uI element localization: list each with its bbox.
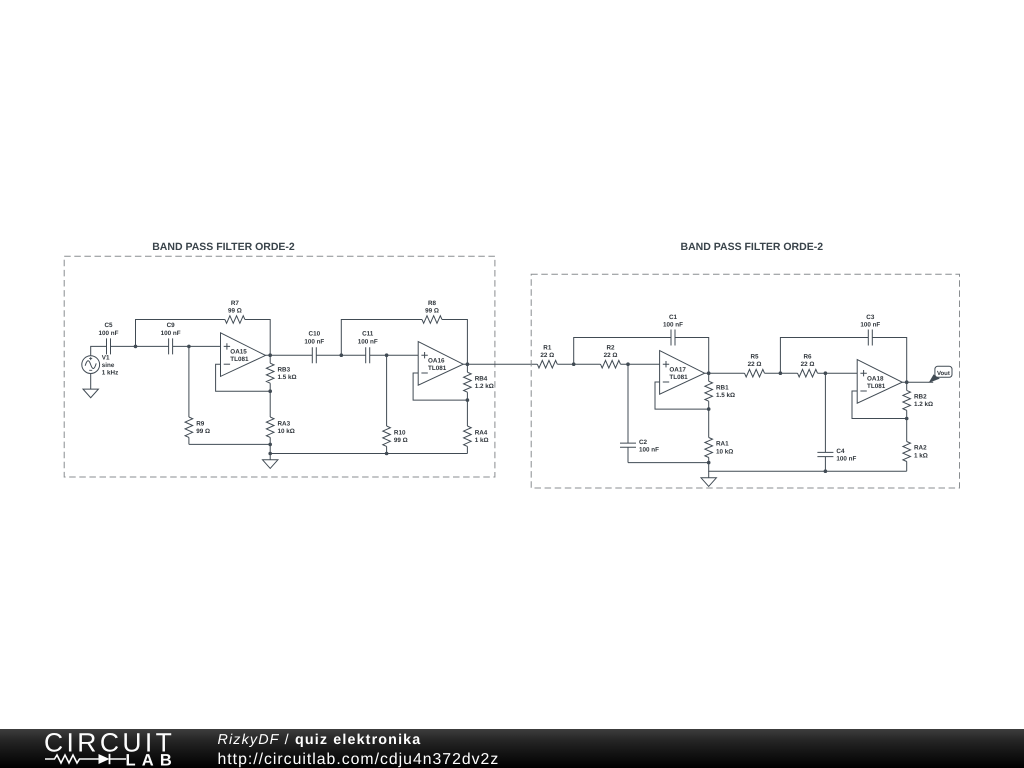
wire C11 to OA16 + input — [370, 354, 419, 356]
svg-text:100 nF: 100 nF — [161, 330, 181, 337]
ground below V1 — [83, 374, 98, 398]
node ground rail junction — [268, 452, 272, 456]
svg-text:OA18: OA18 — [867, 376, 884, 383]
resistor RA3 10 kΩ — [266, 391, 294, 444]
capacitor C1 100 nF — [663, 314, 683, 345]
svg-text:C3: C3 — [866, 314, 875, 321]
svg-text:R6: R6 — [803, 354, 812, 361]
svg-text:1 kΩ: 1 kΩ — [914, 452, 928, 459]
resistor R9 99 Ω — [185, 346, 210, 444]
resistor R5 22 Ω — [745, 354, 765, 378]
capacitor C4 100 nF — [817, 373, 856, 471]
resistor RA2 1 kΩ — [903, 419, 928, 472]
wire OA17 inverting feedback — [655, 382, 709, 409]
resistor RB3 1.5 kΩ — [266, 355, 296, 391]
svg-text:100 nF: 100 nF — [99, 330, 119, 337]
svg-text:C2: C2 — [639, 439, 648, 446]
node C11/R10 junction — [385, 353, 389, 357]
wire OA16 output to R1 — [463, 363, 537, 365]
node R2/C2 junction — [626, 362, 630, 366]
svg-text:99 Ω: 99 Ω — [228, 307, 242, 314]
svg-text:1.2 kΩ: 1.2 kΩ — [475, 383, 494, 390]
svg-text:99 Ω: 99 Ω — [425, 307, 439, 314]
svg-text:1.5 kΩ: 1.5 kΩ — [716, 392, 735, 399]
logo resistor-diode glyph — [45, 755, 126, 763]
svg-text:OA17: OA17 — [669, 367, 686, 374]
ground (stage 3) — [701, 471, 716, 486]
svg-text:100 nF: 100 nF — [304, 339, 324, 346]
node OA17 output — [707, 371, 711, 375]
node R5/C3 feedback junction — [779, 371, 783, 375]
svg-text:RA3: RA3 — [278, 420, 291, 427]
svg-text:1 kΩ: 1 kΩ — [475, 437, 489, 444]
svg-text:RB2: RB2 — [914, 394, 927, 401]
svg-text:22 Ω: 22 Ω — [801, 361, 815, 368]
svg-text:R7: R7 — [231, 300, 240, 307]
wire OA18 output to Vout — [902, 381, 933, 383]
node OA18 output — [905, 380, 909, 384]
op-amp OA16 TL081 — [418, 342, 463, 386]
dashed enclosure box (right band pass filter) — [531, 274, 959, 488]
wire C10 to C11 — [316, 354, 365, 356]
svg-text:C10: C10 — [309, 331, 321, 338]
svg-text:TL081: TL081 — [669, 374, 688, 381]
dashed enclosure box (left band pass filter) — [64, 256, 495, 477]
svg-text:OA16: OA16 — [428, 358, 445, 365]
svg-text:1.2 kΩ: 1.2 kΩ — [914, 401, 933, 408]
node RB1/RA1 feedback junction — [707, 407, 711, 411]
wire OA15 inverting feedback — [216, 364, 271, 391]
svg-text:TL081: TL081 — [230, 356, 249, 363]
wire R8 feedback loop — [341, 320, 467, 365]
svg-text:100 nF: 100 nF — [358, 339, 378, 346]
resistor R7 99 Ω — [225, 300, 245, 324]
node RB4/RA4 feedback junction — [466, 398, 470, 402]
svg-text:R2: R2 — [606, 345, 615, 352]
svg-text:C11: C11 — [362, 331, 374, 338]
svg-text:C5: C5 — [104, 322, 113, 329]
svg-text:RA2: RA2 — [914, 445, 927, 452]
svg-text:C9: C9 — [167, 322, 176, 329]
svg-text:V1: V1 — [102, 354, 110, 361]
svg-text:10 kΩ: 10 kΩ — [278, 428, 295, 435]
resistor R10 99 Ω — [383, 355, 408, 453]
node R10 bottom junction — [385, 452, 389, 456]
svg-text:100 nF: 100 nF — [836, 456, 856, 463]
svg-text:RB1: RB1 — [716, 384, 729, 391]
wire R2 to OA17 + input — [621, 363, 660, 365]
node C5/R7 feedback junction — [134, 345, 138, 349]
capacitor C11 100 nF — [358, 331, 378, 364]
wire C1 feedback loop — [574, 338, 709, 374]
svg-text:TL081: TL081 — [867, 383, 886, 390]
wire C9 to OA15 + input — [173, 345, 221, 347]
capacitor C9 100 nF — [161, 322, 181, 355]
node C9/R9 junction — [187, 345, 191, 349]
svg-text:RizkyDF / quiz elektronika: RizkyDF / quiz elektronika — [218, 732, 422, 748]
svg-text:1 kHz: 1 kHz — [102, 369, 118, 376]
svg-text:TL081: TL081 — [428, 365, 447, 372]
resistor RA1 10 kΩ — [705, 409, 733, 463]
op-amp OA17 TL081 — [660, 351, 705, 395]
wire C3 feedback loop — [780, 338, 906, 383]
wire stage1 ground rail — [270, 444, 467, 453]
svg-text:RB4: RB4 — [475, 375, 488, 382]
resistor RB2 1.2 kΩ — [903, 382, 933, 418]
svg-text:1.5 kΩ: 1.5 kΩ — [278, 374, 297, 381]
op-amp OA18 TL081 — [857, 360, 902, 404]
svg-text:100 nF: 100 nF — [663, 322, 683, 329]
svg-text:99 Ω: 99 Ω — [196, 428, 210, 435]
capacitor C2 100 nF — [620, 364, 659, 462]
node R1/C1 feedback junction — [572, 362, 576, 366]
capacitor C3 100 nF — [860, 314, 880, 345]
svg-text:http://circuitlab.com/cdju4n37: http://circuitlab.com/cdju4n372dv2z — [218, 751, 500, 768]
wire OA18 inverting feedback — [852, 391, 907, 419]
wire OA17 output to R5 — [705, 372, 745, 374]
node RB2/RA2 feedback junction — [905, 417, 909, 421]
svg-text:22 Ω: 22 Ω — [748, 361, 762, 368]
node RA3 bottom junction — [268, 443, 272, 447]
capacitor C10 100 nF — [304, 331, 324, 364]
svg-text:100 nF: 100 nF — [639, 447, 659, 454]
output flag Vout — [929, 366, 952, 383]
svg-text:RA1: RA1 — [716, 441, 729, 448]
svg-text:BAND PASS FILTER ORDE-2: BAND PASS FILTER ORDE-2 — [681, 241, 824, 253]
svg-text:RB3: RB3 — [278, 366, 291, 373]
svg-text:R10: R10 — [394, 429, 406, 436]
node RB3/RA3 feedback junction — [268, 389, 272, 393]
svg-text:sine: sine — [102, 362, 115, 369]
node OA15 output — [268, 353, 272, 357]
svg-text:22 Ω: 22 Ω — [604, 352, 618, 359]
svg-text:R1: R1 — [543, 345, 552, 352]
wire OA16 inverting feedback — [413, 373, 467, 400]
svg-text:LAB: LAB — [126, 752, 179, 768]
svg-text:C1: C1 — [669, 314, 678, 321]
wire R9 to RA3 bottom rail — [189, 443, 270, 445]
svg-text:RA4: RA4 — [475, 429, 488, 436]
svg-text:100 nF: 100 nF — [860, 322, 880, 329]
svg-text:10 kΩ: 10 kΩ — [716, 448, 733, 455]
wire stage3 ground rail — [709, 463, 907, 472]
capacitor C5 100 nF — [99, 322, 119, 355]
svg-text:22 Ω: 22 Ω — [540, 352, 554, 359]
wire V1 top to C5 — [91, 346, 107, 355]
svg-text:Vout: Vout — [937, 370, 950, 377]
wire R7 feedback loop — [136, 320, 271, 356]
svg-text:BAND PASS FILTER ORDE-2: BAND PASS FILTER ORDE-2 — [152, 241, 295, 253]
wire R1 to R2 — [557, 363, 600, 365]
node C4 rail junction — [824, 469, 828, 473]
wire C5 to C9 — [111, 345, 169, 347]
svg-text:R8: R8 — [428, 300, 437, 307]
wire C2 to RA1 rail — [628, 462, 709, 464]
node RA1 bottom junction — [707, 461, 711, 465]
resistor R2 22 Ω — [601, 345, 621, 369]
svg-text:R9: R9 — [196, 420, 205, 427]
footer bar with CircuitLab logo and credits — [0, 729, 1024, 768]
resistor RB4 1.2 kΩ — [464, 364, 494, 400]
svg-text:C4: C4 — [836, 448, 845, 455]
resistor RA4 1 kΩ — [464, 400, 489, 453]
resistor R6 22 Ω — [798, 354, 818, 378]
resistor R1 22 Ω — [537, 345, 557, 369]
wire R6 to OA18 + input — [818, 372, 858, 374]
wire OA15 output to C10 — [266, 354, 313, 356]
node OA16 output — [466, 362, 470, 366]
svg-text:99 Ω: 99 Ω — [394, 437, 408, 444]
svg-text:OA15: OA15 — [230, 349, 247, 356]
resistor RB1 1.5 kΩ — [705, 373, 735, 409]
voltage source V1 sine 1 kHz — [82, 354, 118, 376]
wire R5 to R6 — [765, 372, 798, 374]
resistor R8 99 Ω — [422, 300, 442, 324]
op-amp OA15 TL081 — [221, 333, 266, 377]
node R6/C4 junction — [824, 371, 828, 375]
node C10/R8 feedback junction — [340, 353, 344, 357]
ground (stage 1) — [263, 454, 278, 469]
svg-text:R5: R5 — [750, 354, 759, 361]
